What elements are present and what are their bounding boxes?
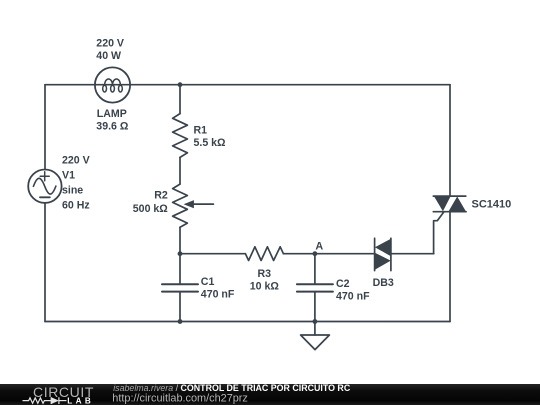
label R1 value 5.5 kohm [194, 137, 227, 149]
svg-text:C1: C1 [201, 276, 215, 288]
diac DB3 [375, 238, 391, 270]
wire C2 top lead [314, 254, 316, 284]
footer logo CIRCUIT [33, 384, 94, 400]
resistor R1 [173, 114, 188, 158]
label R2 value 500 kohm [133, 203, 169, 215]
node A label [315, 240, 323, 252]
svg-text:R2: R2 [154, 190, 168, 202]
capacitor C1 [162, 284, 198, 291]
wire triac gate [434, 212, 444, 254]
junction R2/C1/R3 [178, 251, 183, 256]
footer logo schematic wire [23, 397, 67, 404]
label DB3 [373, 277, 394, 289]
wire R1-R2 lead [179, 157, 181, 184]
junction top at lamp/R1 [178, 82, 183, 87]
wire right rail upper [449, 85, 451, 196]
wire mid left segment [180, 253, 245, 255]
label C1 value 470 nF [201, 288, 235, 300]
footer logo LAB [67, 397, 94, 405]
svg-text:220 V: 220 V [96, 37, 124, 49]
junction C1 bottom [178, 319, 183, 324]
wire bottom rail [45, 321, 450, 323]
node A junction [313, 251, 318, 256]
footer title line [113, 383, 351, 393]
label C2 value 470 nF [336, 290, 370, 302]
svg-text:40 W: 40 W [96, 50, 121, 62]
wire R3 to node A [283, 253, 315, 255]
footer url line [112, 393, 248, 405]
svg-text:SC1410: SC1410 [472, 199, 512, 211]
label C2 [336, 278, 350, 290]
label SC1410 [472, 199, 512, 211]
label source type sine [62, 185, 83, 197]
wire left rail upper [44, 85, 46, 170]
wire top rail [45, 84, 450, 86]
svg-text:sine: sine [62, 185, 83, 197]
label R2 [154, 190, 168, 202]
svg-text:470 nF: 470 nF [201, 288, 235, 300]
label C1 [201, 276, 215, 288]
label source name V1 [62, 170, 75, 182]
label R3 [258, 268, 272, 280]
svg-text:LAB: LAB [67, 397, 94, 405]
wire C1 top lead [179, 254, 181, 284]
label lamp value 40 W [96, 50, 121, 62]
lamp LAMP [95, 67, 130, 102]
label lamp name LAMP [97, 108, 127, 120]
resistor R3 [245, 247, 283, 261]
potentiometer R2 [173, 184, 214, 227]
wire C1 bottom lead [179, 292, 181, 321]
label R1 [194, 125, 208, 137]
wire left rail lower [44, 203, 46, 322]
wire C2 bottom lead [314, 292, 316, 321]
wire node A to DB3 [315, 253, 375, 255]
wire DB3 to gate corner [391, 253, 434, 255]
svg-text:V1: V1 [62, 170, 75, 182]
voltage source V1 [28, 170, 61, 203]
svg-text:R3: R3 [258, 268, 272, 280]
svg-text:60 Hz: 60 Hz [62, 200, 90, 212]
svg-text:R1: R1 [194, 125, 208, 137]
wire R1 top lead [179, 85, 181, 114]
label lamp value 220 V [96, 37, 124, 49]
svg-text:39.6 Ω: 39.6 Ω [96, 121, 129, 133]
label source value 220 V [62, 155, 90, 167]
wire R2 bottom lead [179, 227, 181, 254]
svg-text:470 nF: 470 nF [336, 290, 370, 302]
junction C2/ground [313, 319, 318, 324]
svg-text:http://circuitlab.com/ch27prz: http://circuitlab.com/ch27prz [112, 393, 248, 405]
svg-text:A: A [315, 240, 323, 252]
capacitor C2 [297, 284, 333, 291]
svg-text:10 kΩ: 10 kΩ [250, 281, 280, 293]
footer bar [0, 384, 540, 405]
svg-text:LAMP: LAMP [97, 108, 127, 120]
svg-text:DB3: DB3 [373, 277, 394, 289]
svg-text:isabelma.rivera / CONTROL DE T: isabelma.rivera / CONTROL DE TRIAC POR C… [113, 383, 351, 393]
wire right rail lower [449, 212, 451, 322]
ground [301, 322, 330, 350]
svg-text:220 V: 220 V [62, 155, 90, 167]
label R3 value 10 kohm [250, 281, 280, 293]
svg-text:500 kΩ: 500 kΩ [133, 203, 169, 215]
svg-text:5.5 kΩ: 5.5 kΩ [194, 137, 227, 149]
label lamp resistance 39.6 ohm [96, 121, 129, 133]
svg-text:C2: C2 [336, 278, 350, 290]
label source freq 60 Hz [62, 200, 90, 212]
triac SC1410 [433, 196, 466, 212]
